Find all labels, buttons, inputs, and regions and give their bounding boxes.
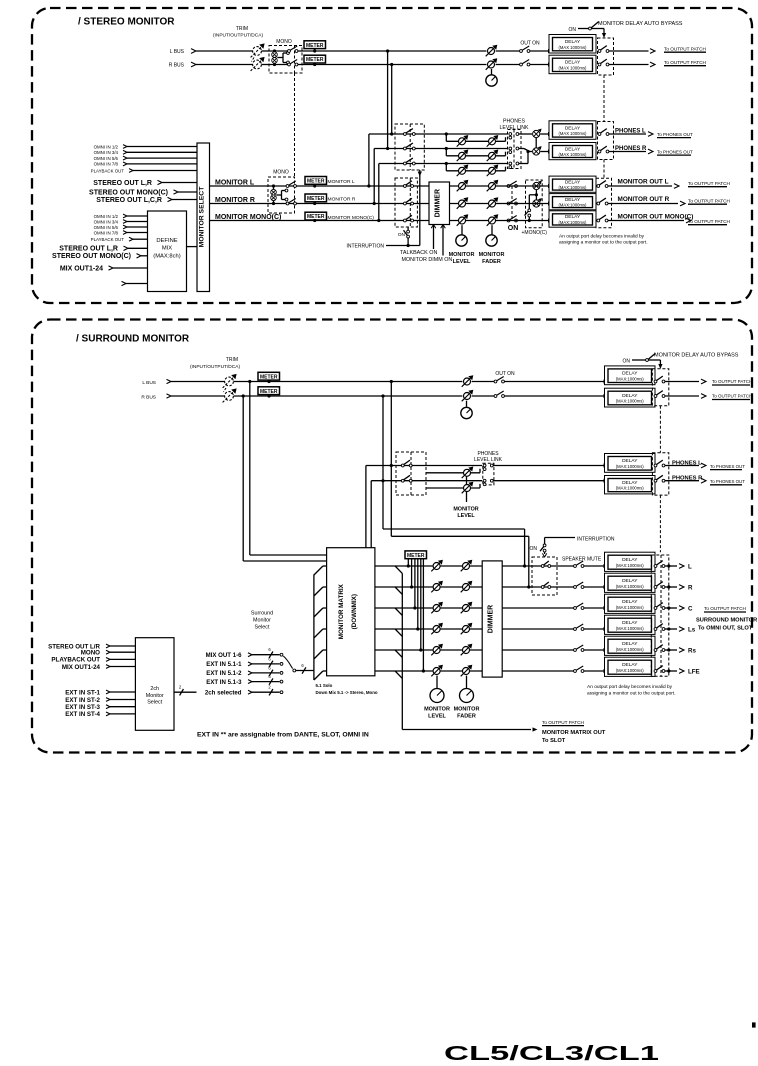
meter monitor L xyxy=(305,177,327,185)
arrow STEREO OUT L/R s xyxy=(106,644,110,648)
svg-text:(MAX:1000ms): (MAX:1000ms) xyxy=(616,486,645,491)
svg-text:Surround: Surround xyxy=(251,611,273,617)
phones sel lever row1 xyxy=(406,129,413,133)
wire OMNI IN 3/4 upper xyxy=(127,151,197,153)
arrow OMNI IN 5/6 upper xyxy=(123,156,127,160)
arrowhead dimm xyxy=(441,225,446,229)
surround monitor frame xyxy=(32,320,752,753)
contact int s b xyxy=(543,549,546,552)
meter tap row2 xyxy=(411,559,413,587)
svg-text:STEREO OUT L,R: STEREO OUT L,R xyxy=(59,246,118,253)
wire STEREO OUT L/R s xyxy=(110,645,135,647)
svg-text:MONITOR SELECT: MONITOR SELECT xyxy=(199,186,206,248)
delay block phones L xyxy=(549,121,596,140)
input arrow R BUS xyxy=(191,62,196,67)
arrow into delay L xyxy=(548,49,553,53)
svg-text:R BUS: R BUS xyxy=(141,394,156,400)
svg-text:PHONES R: PHONES R xyxy=(615,146,647,152)
wire int riser xyxy=(419,170,421,246)
contact 2ch selected xyxy=(280,691,283,694)
wire sum R out xyxy=(540,151,548,153)
contact mo bypass row3 a xyxy=(597,219,600,222)
bus drop C xyxy=(382,396,384,529)
sur byp lever L xyxy=(657,561,663,565)
phones lower line r2 xyxy=(446,155,505,157)
delay block phones L s xyxy=(605,454,656,473)
arrow EXT IN 5.1-3 xyxy=(248,680,252,684)
mo bypass lever row1 xyxy=(599,181,606,185)
wire EXT IN ST-2 s xyxy=(110,699,135,701)
delay block monitor out MONO xyxy=(549,211,596,227)
contact mono2 spur top xyxy=(285,189,288,192)
contact bypass L a xyxy=(598,50,601,53)
wire int up xyxy=(407,238,409,246)
svg-text:ON: ON xyxy=(508,225,519,232)
svg-text:To OUTPUT PATCH: To OUTPUT PATCH xyxy=(664,60,706,65)
tb sel lever row2 xyxy=(406,198,412,202)
contact level link row1 b xyxy=(516,133,519,136)
svg-text:To OUTPUT PATCH: To OUTPUT PATCH xyxy=(542,720,584,725)
meter tick xyxy=(268,395,270,396)
wire 2ch selected xyxy=(252,691,280,693)
svg-text:MONITOR MATRIX OUT: MONITOR MATRIX OUT xyxy=(542,730,606,736)
row Rs wire b xyxy=(584,649,604,651)
wire s ph row2 xyxy=(493,480,603,482)
arrow define extra xyxy=(122,281,127,285)
node out Rs xyxy=(667,648,670,651)
contact mo bypass row2 a xyxy=(597,202,600,205)
fan stub row4 xyxy=(323,628,327,630)
svg-text:ON: ON xyxy=(623,358,631,364)
mo bypass lever row2 xyxy=(599,198,606,202)
wire dimm riser xyxy=(442,225,444,256)
arrow so lr define xyxy=(124,246,129,250)
delay block phones R s xyxy=(605,476,656,494)
matrix knob r1c1 xyxy=(431,560,443,572)
arrow out Rs xyxy=(679,648,684,653)
wire phones R out xyxy=(609,151,646,153)
svg-text:MONITOR: MONITOR xyxy=(454,707,480,713)
svg-text:To PHONES OUT: To PHONES OUT xyxy=(657,149,693,154)
monitor knob r3c2 xyxy=(487,214,499,226)
svg-text:5.1 Solo: 5.1 Solo xyxy=(316,683,333,688)
node monitor L tap xyxy=(367,184,370,187)
wire mono out xyxy=(277,57,283,59)
row L wire b xyxy=(584,565,604,567)
level knob R bus xyxy=(486,58,498,70)
svg-text:(MAX:8ch): (MAX:8ch) xyxy=(153,254,180,260)
arrow OMNI IN 7/8 upper xyxy=(123,162,127,166)
phones lower line r1 xyxy=(446,140,505,142)
wire on to corner xyxy=(592,28,605,30)
svg-text:PHONES L: PHONES L xyxy=(615,129,646,135)
node monitor mono tap xyxy=(377,219,380,222)
speaker mute switch C xyxy=(574,603,584,609)
svg-text:MONITOR MONO(C): MONITOR MONO(C) xyxy=(328,215,375,221)
contact mono spur bottom xyxy=(287,61,290,64)
svg-text:(MAX:1000ms): (MAX:1000ms) xyxy=(616,605,645,610)
contact ph s sel row2 b xyxy=(409,479,412,482)
monitor knob r3c1 xyxy=(457,214,469,226)
arrow into delay LFE xyxy=(604,669,609,673)
svg-text:MONO: MONO xyxy=(81,650,100,657)
row Ls wire b xyxy=(584,628,604,630)
node xyxy=(267,394,270,397)
arrow MONO s xyxy=(106,650,110,654)
arrow EXT IN ST-2 s xyxy=(106,698,110,702)
wire phones L out xyxy=(609,133,646,135)
wire row2 jog b xyxy=(530,151,533,153)
arrow out L xyxy=(679,564,684,569)
out level dial xyxy=(486,75,497,86)
svg-text:(MAX:1000ms): (MAX:1000ms) xyxy=(559,185,588,190)
phones lower jog down r3 xyxy=(445,164,447,171)
monitor fader dial xyxy=(486,235,497,246)
bus C elbow h xyxy=(383,528,525,530)
fan stub row1 xyxy=(323,565,327,567)
wire knob to switch L s xyxy=(472,381,495,383)
contact s bypass L a xyxy=(654,380,657,383)
phones s lower line r2 xyxy=(426,487,480,489)
contact tb sel row2 b xyxy=(411,202,414,205)
wire row1 to delay xyxy=(508,185,549,187)
wire EXT IN 5.1-1 xyxy=(252,663,280,665)
node bus C join xyxy=(523,564,526,567)
contact mo bypass row1 a xyxy=(597,185,600,188)
svg-text:MONITOR MATRIX: MONITOR MATRIX xyxy=(338,583,345,639)
svg-text:ON: ON xyxy=(569,27,577,33)
svg-text:EXT IN 5.1-3: EXT IN 5.1-3 xyxy=(206,679,242,686)
contact ph s sel row1 b xyxy=(409,464,412,467)
svg-text:PHONES: PHONES xyxy=(503,119,525,125)
bypass lever R xyxy=(601,59,607,63)
svg-text:L BUS: L BUS xyxy=(142,380,156,386)
svg-text:Monitor: Monitor xyxy=(146,693,164,699)
selector lever xyxy=(283,656,292,669)
stereo monitor frame xyxy=(32,8,752,303)
speaker mute switch LFE xyxy=(574,666,584,672)
delay bypass box s xyxy=(652,369,668,406)
bus A elbow v xyxy=(242,396,244,561)
arrow into delay R s xyxy=(604,394,609,398)
node row3 join xyxy=(526,150,529,153)
wire 2ch out xyxy=(174,691,197,693)
phones s row2 wire xyxy=(371,480,482,482)
svg-text:MONITOR R: MONITOR R xyxy=(215,197,255,204)
node monitor R tap xyxy=(373,202,376,205)
node +mono row3 xyxy=(528,219,531,222)
arrow MIX OUT1-24 s xyxy=(106,665,110,669)
monitor knob r2c1 xyxy=(457,197,469,209)
wire bypass drop s xyxy=(659,360,661,365)
node xyxy=(267,380,270,383)
node R drop C xyxy=(381,394,384,397)
svg-text:DIMMER: DIMMER xyxy=(435,189,442,217)
phones knob r1c1 xyxy=(457,135,469,147)
svg-text:MONITOR DIMM ON: MONITOR DIMM ON xyxy=(402,257,453,263)
arrow EXT IN 5.1-1 xyxy=(248,662,252,666)
arrow int down xyxy=(418,172,422,177)
matrix feed v2 xyxy=(370,481,372,548)
monitor out bypass box xyxy=(596,178,612,227)
wire to delay R s xyxy=(505,395,604,397)
phones lower jog down r2 xyxy=(445,149,447,156)
wire OMNI IN 1/2 lower xyxy=(127,215,148,217)
svg-text:SURROUND MONITOR: SURROUND MONITOR xyxy=(696,618,757,624)
phones s knob 1 xyxy=(462,467,474,479)
svg-text:SPEAKER MUTE: SPEAKER MUTE xyxy=(562,557,602,563)
contact inj 2a xyxy=(541,586,544,589)
wire +mono to row3 xyxy=(528,217,530,221)
input arrow L BUS xyxy=(191,49,196,54)
contact ph s sel row1 a xyxy=(401,464,404,467)
phones row1 wire xyxy=(369,133,508,135)
matrix out diag row6 xyxy=(395,671,402,678)
contact s link row2 b xyxy=(490,479,493,482)
svg-text:Select: Select xyxy=(147,700,162,706)
underline xyxy=(688,203,727,205)
phones lower jog up r1 xyxy=(505,137,507,141)
wire on to switch s xyxy=(632,359,646,361)
out on switch L s xyxy=(494,377,504,383)
dimmer box xyxy=(429,182,450,225)
arrow MIX OUT 1-6 xyxy=(248,653,252,657)
arrow out R xyxy=(679,585,684,590)
underline xyxy=(712,384,750,386)
node meter row6 xyxy=(422,669,425,672)
inj lever 1 xyxy=(544,561,549,565)
row C wire b xyxy=(584,607,604,609)
contact level link row2 a xyxy=(509,147,512,150)
wire PLAYBACK OUT s xyxy=(110,658,135,660)
wire dial stem 1 xyxy=(461,225,463,234)
speaker mute switch Ls xyxy=(574,624,584,630)
matrix feed v1 xyxy=(365,466,367,548)
contact sur byp Ls b xyxy=(662,628,665,631)
arrow monitor out R xyxy=(680,201,685,206)
svg-text:LEVEL: LEVEL xyxy=(457,513,475,519)
monitor level dial xyxy=(456,235,467,246)
contact mo bypass row1 b xyxy=(605,185,608,188)
inj lever 2 xyxy=(544,582,549,586)
svg-text:TRIM: TRIM xyxy=(226,357,238,363)
wire row3 elbow h xyxy=(519,163,528,165)
delay block Rs xyxy=(605,636,656,655)
svg-text:EXT IN 5.1-1: EXT IN 5.1-1 xyxy=(206,661,242,668)
slash selector out xyxy=(302,667,306,673)
arrow R BUS s xyxy=(167,394,172,398)
wire s ph row1 xyxy=(493,465,603,467)
mono select box divider xyxy=(294,46,296,74)
trim gang link xyxy=(252,58,255,62)
svg-text:To PHONES OUT: To PHONES OUT xyxy=(710,464,745,469)
svg-text:DEFINE: DEFINE xyxy=(156,238,177,244)
node meter row3 xyxy=(413,606,416,609)
s bypass lever L xyxy=(657,376,663,380)
monitor fader dial s xyxy=(460,689,474,703)
bus C elbow v xyxy=(524,529,526,566)
wire R s main xyxy=(234,395,463,397)
contact phones sel row2 a xyxy=(404,147,407,150)
int lever s xyxy=(540,546,544,551)
underline xyxy=(664,51,706,53)
contact s link row1 a xyxy=(483,464,486,467)
svg-text:MONITOR: MONITOR xyxy=(479,252,505,258)
contact tb sel row2 a xyxy=(404,202,407,205)
+mono sum L xyxy=(533,181,542,190)
contact s link row1 a2 xyxy=(483,468,486,471)
arrow stereo out lr xyxy=(158,180,163,184)
arrow EXT IN ST-1 s xyxy=(106,690,110,694)
wire so lr define xyxy=(128,247,148,249)
matrix out diag row3 xyxy=(395,608,402,615)
ph s sel lever row1 xyxy=(404,460,410,464)
contact s ph byp 1a xyxy=(654,464,657,467)
int lever xyxy=(404,230,408,235)
wire OMNI IN 5/6 lower xyxy=(127,226,148,228)
wire out R xyxy=(665,586,677,588)
arrow into delay L xyxy=(604,564,609,568)
phones knob r2c2 xyxy=(487,150,499,162)
wire sum link xyxy=(535,138,537,148)
phones lower jog up r2 xyxy=(505,152,507,156)
row R wire a xyxy=(375,586,574,588)
monitor level dial s xyxy=(430,689,444,703)
matrix out diag row5 xyxy=(395,650,402,657)
arrow stereo out lcr xyxy=(168,197,173,201)
wire s phones L out xyxy=(665,465,699,467)
svg-text:EXT IN ST-2: EXT IN ST-2 xyxy=(65,697,100,704)
wire define to select xyxy=(187,246,198,248)
svg-text:MONO: MONO xyxy=(276,39,292,45)
talkback select box xyxy=(395,178,417,227)
phones s link box xyxy=(483,463,494,485)
svg-text:An output port delay becomes i: An output port delay becomes invalid by xyxy=(587,684,673,690)
wire PLAYBACK OUT upper xyxy=(133,170,197,172)
out on switch R xyxy=(520,60,530,66)
page mark xyxy=(752,1022,756,1027)
svg-text:TALKBACK ON: TALKBACK ON xyxy=(400,250,437,256)
contact tb sel row3 b xyxy=(411,219,414,222)
row Rs wire a xyxy=(375,649,574,651)
svg-text:Select: Select xyxy=(255,625,270,631)
delay block monitor out R xyxy=(549,194,596,210)
svg-text:INTERRUPTION: INTERRUPTION xyxy=(577,536,615,542)
fan diag row3 xyxy=(314,608,323,617)
fan stub row5 xyxy=(323,649,327,651)
node R drop A xyxy=(242,394,245,397)
svg-text:MONITOR: MONITOR xyxy=(453,507,478,513)
meter matrix xyxy=(405,551,427,559)
svg-text:(MAX:1000ms): (MAX:1000ms) xyxy=(616,563,645,568)
wire delay out R xyxy=(609,64,649,66)
svg-text:FADER: FADER xyxy=(457,714,476,720)
node meter L xyxy=(313,49,316,52)
ph bypass lever L xyxy=(601,129,607,133)
arrowhead int s xyxy=(542,553,546,557)
arrow EXT IN ST-3 s xyxy=(106,705,110,709)
node meter row4 xyxy=(416,627,419,630)
node R bus drop xyxy=(390,63,393,66)
wire out L xyxy=(665,565,677,567)
+mono box xyxy=(526,180,543,228)
phones sum R xyxy=(533,146,542,155)
arrow into delay R xyxy=(604,585,609,589)
svg-text:ON: ON xyxy=(398,232,406,238)
phones s select box xyxy=(396,452,426,495)
svg-text:MONITOR: MONITOR xyxy=(424,707,450,713)
contact s bypass R b xyxy=(662,395,665,398)
svg-text:R BUS: R BUS xyxy=(169,63,185,69)
matrix knob r2c2 xyxy=(461,581,473,593)
svg-text:METER: METER xyxy=(307,214,325,220)
s bypass lever R xyxy=(657,391,663,395)
svg-text:To OUTPUT PATCH: To OUTPUT PATCH xyxy=(688,181,730,186)
wire through mono R xyxy=(269,64,288,66)
monitor knob r1c2 xyxy=(487,180,499,192)
slash EXT IN 5.1-2 xyxy=(269,670,273,676)
phones delay bypass box xyxy=(598,122,614,160)
meter tick xyxy=(268,380,270,381)
svg-text:STEREO OUT MONO(C): STEREO OUT MONO(C) xyxy=(52,253,131,260)
+mono sum R xyxy=(533,198,542,207)
contact bypass R b xyxy=(606,63,609,66)
surround bypass divider xyxy=(660,555,662,676)
svg-text:PLAYBACK OUT: PLAYBACK OUT xyxy=(91,168,125,173)
wire mix out xyxy=(113,267,148,269)
underline xyxy=(710,469,742,471)
speaker mute switch R xyxy=(574,582,584,588)
phones s lower jog up r2 xyxy=(479,484,481,488)
meter R tick xyxy=(314,63,316,65)
wire row3 elbow v xyxy=(527,152,529,164)
arrow L BUS s xyxy=(167,379,172,383)
svg-text:(INPUT/OUTPUT/DCA): (INPUT/OUTPUT/DCA) xyxy=(190,364,241,370)
contact sur byp R a xyxy=(654,586,657,589)
wire sum L out xyxy=(540,133,548,135)
out on switch L xyxy=(520,46,530,52)
arrow OMNI IN 1/2 upper xyxy=(123,145,127,149)
svg-text:EXT IN ST-4: EXT IN ST-4 xyxy=(65,711,100,718)
svg-text:OUT ON: OUT ON xyxy=(520,41,540,47)
svg-text:To OUTPUT PATCH: To OUTPUT PATCH xyxy=(704,606,746,611)
monitor out on switch row1 xyxy=(507,181,517,187)
monitor L row wire xyxy=(210,185,508,187)
arrow into delay C xyxy=(604,606,609,610)
phones s bypass box xyxy=(652,453,668,495)
wire MIX OUT1-24 s xyxy=(110,666,135,668)
node row2 jog xyxy=(445,147,448,150)
wire knob to out-on L xyxy=(496,50,520,52)
arrow so mono define xyxy=(137,254,142,258)
contact mo bypass row3 b xyxy=(605,219,608,222)
svg-text:(MAX 1000ms): (MAX 1000ms) xyxy=(559,131,588,136)
phones lower jog up r3 xyxy=(505,167,507,171)
sur byp lever R xyxy=(657,582,663,586)
wire bypass drop xyxy=(603,29,605,34)
contact s bypass L b xyxy=(662,380,665,383)
wire out Ls xyxy=(665,628,677,630)
fan stub row3 xyxy=(323,607,327,609)
node out Ls xyxy=(667,627,670,630)
contact s ph byp 2a xyxy=(654,479,657,482)
meter R bus xyxy=(304,55,326,63)
arrow out R xyxy=(650,62,655,67)
arrow phones R xyxy=(648,149,653,154)
matrix knob r6c1 xyxy=(431,665,443,677)
contact sur byp Rs b xyxy=(662,649,665,652)
svg-text:MONO: MONO xyxy=(273,170,289,176)
